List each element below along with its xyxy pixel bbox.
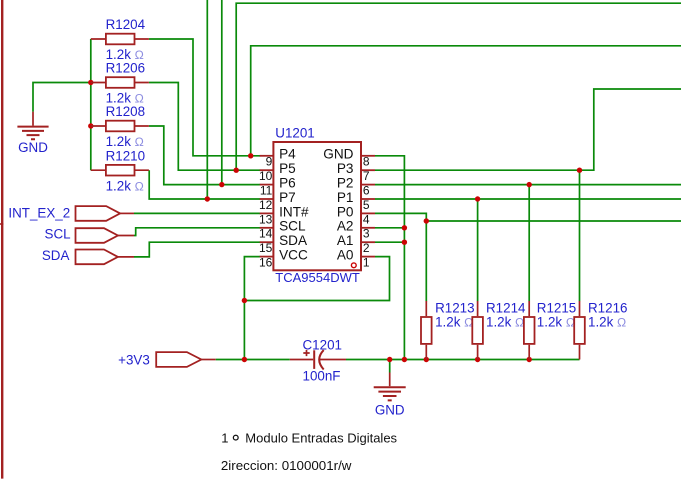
wire net P5: branch from pin 10 up and right to sheet edge [236, 3, 681, 170]
svg-text:13: 13 [259, 212, 273, 226]
svg-text:3: 3 [363, 227, 370, 241]
svg-text:SDA: SDA [279, 233, 308, 248]
svg-text:R1208: R1208 [106, 104, 145, 119]
svg-text:5: 5 [363, 198, 370, 212]
svg-text:2ireccion: 0100001r/w: 2ireccion: 0100001r/w [221, 458, 352, 473]
resistor R1210 1.2k [91, 148, 149, 193]
svg-text:P0: P0 [337, 204, 354, 219]
wire GND to resistor bus vertical [90, 39, 92, 170]
wire net P6: R1208 output down to pin 11 [149, 126, 260, 185]
wire net GND: stub to ground symbol [389, 360, 391, 373]
junction net P3 at R1216 [577, 168, 582, 173]
svg-text:1: 1 [221, 431, 228, 446]
pin 9 P4 (left) [260, 147, 296, 169]
junction net GND at A1 [402, 240, 407, 245]
pin 14 SCL (left) [259, 219, 306, 241]
wire net P1: branch down to R1214 [477, 199, 479, 301]
note: module title text [221, 431, 397, 446]
wire net INT_EX_2 to pin 13 [134, 212, 260, 214]
wire net P7: R1210 output down to pin 12 [149, 170, 260, 199]
svg-text:11: 11 [260, 184, 273, 198]
junction net P5 at pin 10 [234, 168, 239, 173]
svg-text:SCL: SCL [279, 219, 306, 234]
pin 10 P5 (left) [259, 161, 296, 183]
junction net GND at R1215 [527, 357, 532, 362]
pin 3 A2 (right) [337, 219, 375, 241]
svg-text:1.2k Ω: 1.2k Ω [106, 178, 144, 193]
pin 1 A0 (right) [337, 248, 375, 270]
junction net GND at pin-8 column [402, 357, 407, 362]
wire net P0: pin 4 jog down then right to sheet edge [375, 213, 681, 221]
svg-text:P2: P2 [337, 176, 354, 191]
svg-text:INT_EX_2: INT_EX_2 [8, 205, 70, 220]
svg-text:R1213: R1213 [435, 300, 474, 315]
wire net GND rail: C1201 right plate to R1216 bottom [346, 359, 580, 361]
svg-text:+3V3: +3V3 [118, 353, 150, 368]
pin 7 P3 (right) [337, 161, 375, 183]
svg-text:P6: P6 [279, 176, 296, 191]
svg-text:10: 10 [259, 169, 273, 183]
junction GND bus at R1206 [88, 80, 93, 85]
resistor R1214 1.2k [472, 300, 526, 359]
pin 15 SDA (left) [259, 233, 308, 255]
svg-text:8: 8 [363, 155, 370, 169]
svg-text:1.2k Ω: 1.2k Ω [106, 134, 144, 149]
wire net P3: branch down to R1216 [579, 170, 581, 301]
wire net +3V3: A0 pin 1 jumper down and across [244, 257, 389, 301]
wire net P1: pin 5 right to sheet edge [375, 198, 681, 200]
connector flag INT_EX_2 [8, 205, 134, 220]
wire net P3: pin 7 right, up to sheet edge [375, 89, 681, 170]
junction net GND at R1214 [475, 357, 480, 362]
svg-text:12: 12 [259, 198, 273, 212]
svg-text:SCL: SCL [45, 227, 71, 242]
wire net GND: pin 8 down the right side [375, 156, 404, 360]
pin 16 VCC (left) [259, 248, 308, 270]
wire net P6: branch from pin 11 to top sheet edge [221, 0, 223, 185]
pin 5 P1 (right) [337, 190, 375, 212]
svg-text:R1215: R1215 [537, 300, 576, 315]
svg-text:7: 7 [363, 169, 370, 183]
wire net +3V3: up to VCC pin 16 [244, 257, 260, 360]
junction net P2 at R1215 [527, 182, 532, 187]
svg-text:P4: P4 [279, 147, 296, 162]
svg-text:P3: P3 [337, 161, 354, 176]
ground GND (left) [17, 112, 48, 156]
pin 11 P6 (left) [260, 176, 296, 198]
capacitor C1201 100nF [290, 338, 346, 384]
svg-text:GND: GND [375, 403, 405, 418]
svg-text:P1: P1 [337, 190, 354, 205]
svg-text:P7: P7 [279, 190, 296, 205]
wire net SDA to pin 15 [134, 242, 260, 257]
wire net P7: branch from pin 12 to top sheet edge [206, 0, 208, 199]
junction net P1 at R1214 [475, 196, 480, 201]
connector flag SDA [42, 248, 134, 264]
svg-text:GND: GND [323, 147, 353, 162]
junction net GND at R1213 [424, 357, 429, 362]
junction net P0 at R1213 [424, 218, 429, 223]
pin 2 A1 (right) [337, 233, 375, 255]
pin 12 P7 (left) [259, 190, 296, 212]
wire net P0: branch down to R1213 [425, 221, 427, 301]
svg-text:9: 9 [266, 155, 273, 169]
svg-text:C1201: C1201 [303, 338, 342, 353]
wire net GND: pin 3 A2 tie [375, 227, 404, 229]
junction GND bus at R1208 [88, 123, 93, 128]
wire GND symbol to bus [33, 83, 91, 112]
svg-text:14: 14 [259, 227, 273, 241]
svg-text:R1204: R1204 [106, 17, 146, 32]
svg-text:15: 15 [259, 241, 273, 255]
wire net P4: branch from pin 9 up and right to sheet edge [251, 46, 681, 156]
svg-text:1: 1 [363, 256, 370, 270]
svg-text:GND: GND [18, 140, 48, 155]
ground GND (bottom, at C1201) [374, 373, 406, 418]
connector flag +3V3 [118, 352, 216, 367]
wire net P5: R1206 output down to pin 10 [149, 83, 260, 171]
junction net P6 at pin 11 [219, 182, 224, 187]
pin 13 INT# (left) [259, 204, 309, 226]
svg-text:VCC: VCC [279, 248, 308, 263]
svg-text:R1206: R1206 [106, 61, 145, 76]
resistor R1216 1.2k [574, 300, 627, 359]
svg-text:R1216: R1216 [588, 300, 627, 315]
svg-text:U1201: U1201 [275, 126, 314, 141]
svg-text:1.2k Ω: 1.2k Ω [537, 315, 575, 330]
resistor R1215 1.2k [524, 300, 576, 359]
svg-text:R1210: R1210 [106, 148, 145, 163]
junction net GND at ground symbol [387, 357, 392, 362]
svg-text:1.2k Ω: 1.2k Ω [486, 315, 524, 330]
svg-text:Modulo Entradas Digitales: Modulo Entradas Digitales [245, 431, 397, 446]
svg-text:A2: A2 [337, 219, 354, 234]
resistor R1206 1.2k [91, 61, 149, 106]
junction net GND at A2 [402, 225, 407, 230]
svg-text:A0: A0 [337, 248, 354, 263]
svg-text:100nF: 100nF [303, 369, 341, 384]
svg-text:R1214: R1214 [486, 300, 526, 315]
svg-text:INT#: INT# [279, 204, 309, 219]
wire net P2: branch down to R1215 [528, 185, 530, 302]
pin 4 P0 (right) [337, 204, 375, 226]
junction net P7 at pin 12 [205, 196, 210, 201]
svg-text:16: 16 [259, 256, 273, 270]
connector flag SCL [45, 227, 134, 243]
wire net P4: R1204 output down to pin 9 [149, 39, 260, 156]
svg-text:SDA: SDA [42, 248, 70, 263]
resistor R1213 1.2k [421, 300, 475, 359]
junction net +3V3 at flag rail [242, 357, 247, 362]
junction net P4 at pin 9 [248, 153, 253, 158]
svg-text:P5: P5 [279, 161, 296, 176]
op IC U1201 TCA9554DWT body [273, 126, 361, 285]
svg-text:2: 2 [363, 241, 370, 255]
resistor R1208 1.2k [91, 104, 149, 149]
pin 6 P2 (right) [337, 176, 375, 198]
pin 8 GND (right) [323, 147, 375, 169]
wire net GND: pin 2 A1 tie [375, 241, 404, 243]
wire net SCL to pin 14 [134, 228, 260, 236]
resistor R1204 1.2k [91, 17, 149, 62]
svg-text:1.2k Ω: 1.2k Ω [588, 315, 626, 330]
wire net +3V3: flag to C1201 left plate [216, 359, 290, 361]
junction net +3V3 at A0 jumper [242, 298, 247, 303]
svg-text:4: 4 [363, 212, 370, 226]
svg-text:TCA9554DWT: TCA9554DWT [275, 270, 360, 285]
wire net P2: pin 6 right to sheet edge [375, 184, 681, 186]
svg-text:6: 6 [363, 184, 370, 198]
note: address text [221, 458, 352, 473]
svg-text:A1: A1 [337, 233, 354, 248]
svg-text:1.2k Ω: 1.2k Ω [435, 315, 473, 330]
